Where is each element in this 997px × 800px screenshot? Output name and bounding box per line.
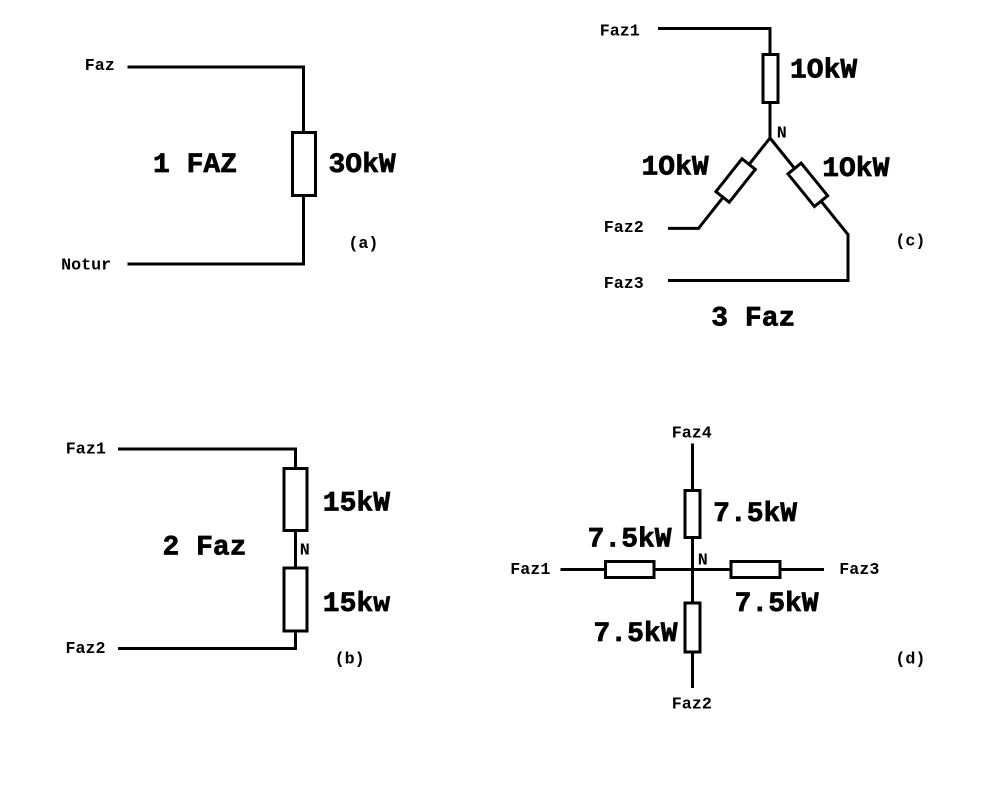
svg-text:N: N bbox=[300, 541, 310, 560]
wire right resistor to Faz3 bbox=[781, 568, 825, 571]
wire left resistor to right resistor through node bbox=[655, 568, 731, 571]
wire Faz1 to resistor bbox=[118, 449, 296, 468]
resistor 7.5kW left bbox=[606, 562, 655, 578]
svg-text:1OkW: 1OkW bbox=[822, 154, 889, 185]
wire resistor top to resistor bottom through node bbox=[691, 537, 694, 602]
wire Faz1 to left resistor bbox=[561, 568, 606, 571]
resistor 7.5kW top bbox=[685, 491, 700, 538]
resistor 7.5kW bottom bbox=[685, 603, 700, 652]
svg-text:(c): (c) bbox=[895, 233, 925, 252]
wire resistor to Faz2 bbox=[118, 631, 296, 649]
wire between resistors bbox=[294, 532, 297, 567]
svg-text:Faz3: Faz3 bbox=[604, 275, 644, 294]
resistor 10kW right bbox=[788, 163, 828, 206]
wire node to Faz3 (right diagonal) bbox=[668, 138, 848, 281]
svg-text:15kW: 15kW bbox=[323, 489, 390, 520]
resistor 10kW top bbox=[763, 55, 778, 103]
svg-text:Notur: Notur bbox=[61, 256, 111, 275]
svg-text:1 FAZ: 1 FAZ bbox=[153, 150, 237, 181]
wire Faz4 to resistor bbox=[691, 444, 694, 491]
svg-text:15kw: 15kw bbox=[323, 589, 390, 620]
svg-text:N: N bbox=[777, 124, 787, 143]
resistor 7.5kW right bbox=[731, 562, 780, 578]
svg-text:3 Faz: 3 Faz bbox=[711, 303, 795, 334]
svg-text:Faz2: Faz2 bbox=[672, 695, 712, 714]
svg-text:Faz1: Faz1 bbox=[66, 440, 106, 459]
svg-text:(a): (a) bbox=[348, 235, 378, 254]
svg-text:N: N bbox=[698, 551, 708, 570]
svg-text:Faz4: Faz4 bbox=[672, 425, 712, 444]
svg-text:(b): (b) bbox=[335, 651, 365, 670]
wire Faz to resistor bbox=[128, 67, 304, 132]
wire resistor to node N bbox=[769, 103, 772, 140]
resistor 30kW bbox=[293, 133, 316, 196]
svg-text:7.5kW: 7.5kW bbox=[735, 589, 819, 620]
svg-text:7.5kW: 7.5kW bbox=[594, 619, 678, 650]
svg-text:2 Faz: 2 Faz bbox=[163, 533, 247, 564]
svg-text:7.5kW: 7.5kW bbox=[588, 525, 672, 556]
wire resistor to Faz2 bbox=[691, 654, 694, 689]
svg-text:(d): (d) bbox=[895, 650, 925, 669]
svg-text:Faz2: Faz2 bbox=[604, 219, 644, 238]
svg-text:Faz1: Faz1 bbox=[510, 561, 550, 580]
resistor 15kw lower bbox=[284, 568, 307, 631]
svg-text:Faz: Faz bbox=[85, 57, 115, 76]
svg-text:Faz2: Faz2 bbox=[66, 640, 106, 659]
wire Faz1 to resistor bbox=[658, 29, 770, 55]
resistor 10kW left bbox=[716, 159, 755, 202]
svg-text:Faz3: Faz3 bbox=[839, 561, 879, 580]
resistor 15kW upper bbox=[284, 469, 307, 531]
svg-text:1OkW: 1OkW bbox=[790, 56, 857, 87]
svg-text:7.5kW: 7.5kW bbox=[713, 499, 797, 530]
wire node to Faz2 (left diagonal) bbox=[668, 138, 770, 228]
wire resistor to Notur bbox=[128, 196, 304, 264]
svg-text:1OkW: 1OkW bbox=[642, 153, 709, 184]
svg-text:3OkW: 3OkW bbox=[329, 150, 396, 181]
svg-text:Faz1: Faz1 bbox=[600, 23, 640, 42]
